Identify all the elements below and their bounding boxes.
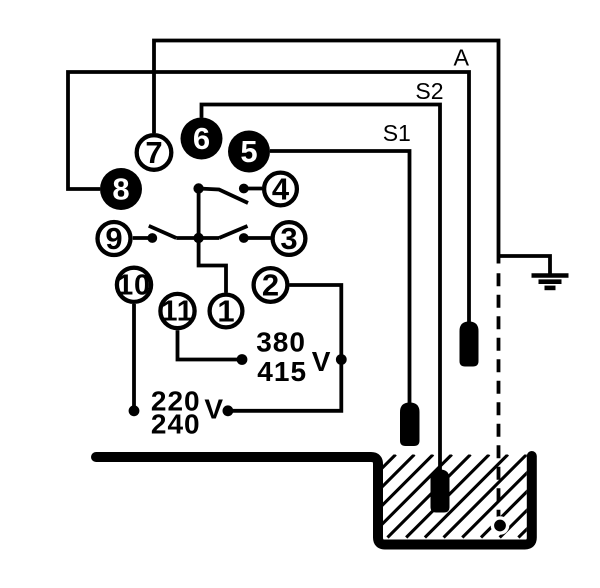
electrode S1 <box>400 403 420 447</box>
svg-text:5: 5 <box>240 134 257 169</box>
svg-text:8: 8 <box>112 171 129 206</box>
svg-text:415: 415 <box>257 356 307 387</box>
wire pin10 terminal <box>132 304 136 411</box>
wire pin6 to electrode S2 <box>202 105 441 472</box>
wire contact to pin4 <box>244 187 262 191</box>
svg-text:V: V <box>204 394 223 425</box>
wire pin11 terminal <box>178 330 243 359</box>
terminal dot pin11 <box>237 354 248 365</box>
svg-text:S2: S2 <box>415 78 443 104</box>
pin 9 <box>98 221 131 256</box>
pin 3 <box>273 221 306 256</box>
pin 11 <box>160 294 194 328</box>
svg-text:7: 7 <box>145 135 162 170</box>
pin 8 <box>100 168 142 210</box>
wire pin8 to electrode A <box>68 72 469 323</box>
node top <box>193 183 203 193</box>
svg-text:V: V <box>312 346 331 377</box>
pin 5 <box>228 131 270 173</box>
electrode A <box>460 322 479 367</box>
ground <box>532 276 569 288</box>
pin 7 <box>137 135 172 170</box>
junction dot 380V tap <box>336 354 347 365</box>
pin 6 <box>181 118 223 160</box>
wire contact to pin3 <box>244 236 271 240</box>
svg-text:10: 10 <box>117 270 151 302</box>
wire common crossbar <box>176 236 219 240</box>
terminal dot 220V <box>223 405 234 416</box>
svg-text:3: 3 <box>280 221 297 256</box>
svg-text:1: 1 <box>217 293 234 328</box>
wire dashed to tank <box>497 273 501 523</box>
svg-text:S1: S1 <box>383 120 411 146</box>
wire ground branch <box>499 256 551 274</box>
wire pin7 to top line, right side down <box>154 41 499 264</box>
wire common vertical to pin1 <box>199 189 226 293</box>
contact dot pin3 <box>239 233 249 243</box>
terminal dot pin10 <box>129 405 140 416</box>
pin 2 <box>254 267 288 302</box>
switch blade left (to pin9) <box>149 226 177 238</box>
svg-text:A: A <box>454 45 470 71</box>
svg-text:4: 4 <box>272 171 290 206</box>
svg-text:9: 9 <box>105 221 122 256</box>
node center <box>193 233 203 243</box>
wire pin2 supply loop <box>228 285 341 411</box>
svg-text:240: 240 <box>151 408 201 439</box>
pin 1 <box>210 293 243 328</box>
svg-text:2: 2 <box>262 267 279 302</box>
contact dot pin4 <box>239 184 249 194</box>
wire pin5 to electrode S1 <box>270 151 410 403</box>
pin 4 <box>264 171 297 206</box>
electrode S2 <box>431 470 450 513</box>
water hatching <box>313 455 600 538</box>
node earth dot in tank <box>491 516 510 535</box>
svg-text:11: 11 <box>161 296 193 328</box>
tank <box>96 456 532 545</box>
svg-text:6: 6 <box>193 121 210 156</box>
pin 10 <box>117 268 151 302</box>
switch blade right (to pin3) <box>219 226 248 238</box>
wire pin9 to contact <box>133 236 153 240</box>
contact dot pin9 <box>147 233 157 243</box>
svg-text:380: 380 <box>256 327 306 358</box>
switch blade top (to pin4) <box>199 189 248 204</box>
